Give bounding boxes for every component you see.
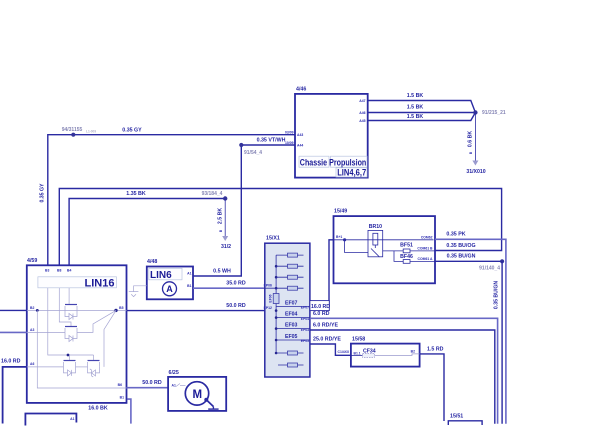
box 6/25 motor	[168, 370, 226, 411]
svg-text:B8: B8	[57, 269, 61, 273]
svg-text:15/49: 15/49	[334, 209, 347, 215]
svg-text:B3: B3	[45, 269, 49, 273]
internal bus to motor pin	[37, 310, 126, 388]
svg-text:BF51: BF51	[400, 242, 413, 248]
ground for LIN6	[129, 286, 147, 297]
svg-text:31/X010: 31/X010	[466, 169, 485, 175]
svg-text:B2: B2	[411, 349, 415, 353]
fuse EF04 row	[276, 317, 310, 319]
ground arrow 31/X010	[472, 161, 478, 166]
svg-text:25.0 RD/YE: 25.0 RD/YE	[313, 337, 341, 343]
fuse row 9	[275, 352, 278, 355]
transistor Q2	[59, 288, 77, 342]
svg-text:0.35 VT/WH: 0.35 VT/WH	[257, 138, 286, 144]
svg-text:15/58: 15/58	[352, 337, 365, 343]
wire 25.0 RD/YE to 15/58	[310, 344, 351, 355]
svg-text:A47: A47	[359, 99, 365, 103]
fuse row 2	[275, 265, 278, 268]
svg-text:COM61 B: COM61 B	[417, 246, 433, 250]
svg-text:2.5 BK: 2.5 BK	[218, 208, 224, 224]
svg-text:0.35 BU/GN: 0.35 BU/GN	[447, 254, 476, 260]
wire 1.35 BK from LIN16 pin B4 to node 93/184_4	[69, 199, 225, 266]
LIN16 name plate	[38, 277, 117, 288]
box 4/48 LIN6	[147, 259, 193, 299]
fuse row 4 / EP06 input	[275, 287, 278, 290]
svg-text:A46: A46	[359, 111, 365, 115]
svg-text:EF07: EF07	[285, 300, 298, 306]
svg-text:93/184_4: 93/184_4	[202, 191, 223, 197]
svg-text:A6: A6	[30, 362, 34, 366]
motor M symbol	[185, 382, 208, 405]
transistor Q1	[65, 288, 77, 320]
LIN16 internal row2 line	[27, 331, 65, 333]
svg-text:6.0 RD/YE: 6.0 RD/YE	[313, 323, 338, 329]
svg-text:1.5 RD: 1.5 RD	[427, 347, 444, 353]
svg-text:EP04: EP04	[301, 317, 309, 321]
svg-text:A3: A3	[30, 328, 34, 332]
fuse EF03 row	[276, 328, 310, 330]
svg-text:A: A	[166, 284, 173, 294]
wire Q2 drain to pin B5	[77, 310, 116, 332]
wire 0.6 BK ground drop	[474, 113, 476, 161]
svg-text:50.0 RD: 50.0 RD	[142, 380, 162, 386]
wire 35.0 RD LIN6 to 15/X1	[193, 287, 265, 289]
svg-text:LIN16: LIN16	[85, 277, 115, 289]
motor ground leg	[204, 398, 208, 402]
svg-text:B6: B6	[118, 383, 122, 387]
svg-text:1.35 BK: 1.35 BK	[126, 191, 146, 197]
wire 2.5 BK ground drop	[224, 199, 226, 237]
svg-text:03/09: 03/09	[285, 131, 294, 135]
gate bus from pin B3	[48, 288, 94, 355]
svg-text:A45: A45	[359, 119, 365, 123]
svg-text:16.0 BK: 16.0 BK	[88, 406, 108, 412]
actuator A symbol	[163, 282, 177, 296]
svg-text:16.0 RD: 16.0 RD	[1, 359, 21, 365]
fuse EF05 row	[276, 339, 310, 341]
wire 50.0 RD LIN16 to 15/X1	[127, 310, 265, 312]
fuse BF51	[383, 242, 435, 253]
wire 6.0 RD	[310, 318, 498, 423]
svg-text:BR10: BR10	[369, 224, 382, 230]
svg-text:1.5 BK: 1.5 BK	[407, 114, 424, 120]
svg-text:0.6 BK: 0.6 BK	[468, 131, 474, 147]
wire 0.35 BU/OG loop from 15/49 over the top to LIN16 pin B8	[59, 189, 501, 266]
box 4/46 Chassie Propulsion	[285, 87, 368, 178]
svg-text:B1.1: B1.1	[354, 351, 361, 355]
svg-text:EP06: EP06	[264, 284, 272, 288]
svg-text:EF05: EF05	[285, 334, 298, 340]
transistor Q3	[64, 361, 76, 376]
svg-text:EP03: EP03	[301, 328, 309, 332]
svg-text:0.5 WH: 0.5 WH	[213, 269, 231, 275]
wire 6.0 RD/YE	[310, 330, 495, 424]
node 91/140_4 junction dot	[500, 259, 504, 263]
internal feed bus	[275, 255, 277, 293]
svg-text:4/59: 4/59	[27, 258, 37, 264]
svg-text:A44: A44	[297, 144, 303, 148]
LIN16 internal row3 line	[27, 366, 64, 368]
fuse CF34	[363, 353, 375, 357]
svg-text:91/54_4: 91/54_4	[244, 150, 262, 156]
fuse EF06 vertical	[273, 294, 279, 304]
box 4/59 LIN16	[27, 258, 127, 403]
svg-text:94/31155: 94/31155	[62, 127, 83, 133]
fuse EF07 row	[276, 305, 310, 307]
wire 0.35 VT/WH + 0.5 WH from LIN6 pin A1 up to 4/46	[193, 145, 295, 276]
svg-text:6/25: 6/25	[169, 370, 179, 376]
svg-text:A43: A43	[297, 133, 303, 137]
node 91/215_21 junction dot	[473, 110, 477, 114]
wire 1.5 RD to 15/51	[420, 354, 444, 421]
relay switch contact	[371, 249, 380, 258]
fuse BF46	[394, 251, 435, 263]
svg-text:Chassie Propulsion: Chassie Propulsion	[300, 157, 367, 167]
wire left row1	[0, 309, 27, 311]
wire 1.5 BK pin A45	[368, 113, 476, 121]
svg-text:B+1: B+1	[336, 235, 342, 239]
svg-text:EP12: EP12	[264, 306, 272, 310]
svg-text:50.0 RD: 50.0 RD	[226, 303, 246, 309]
svg-text:35.0 RD: 35.0 RD	[226, 281, 246, 287]
box 15/X1 central electric unit connector	[265, 236, 310, 377]
LIN16 internal row1 line	[27, 309, 127, 311]
svg-text:LIN6: LIN6	[150, 270, 172, 281]
relay coil	[373, 233, 378, 245]
wire 0.35 BU/GN from COM61 A	[435, 260, 502, 262]
wire 50.0 RD LIN16 to motor	[127, 387, 169, 389]
svg-text:15/51: 15/51	[450, 414, 463, 420]
wire 16.0 BK bracket	[25, 414, 76, 426]
svg-text:EF03: EF03	[285, 323, 298, 329]
svg-text:B2: B2	[30, 306, 34, 310]
fuse row 1	[276, 254, 303, 256]
wire relay switch feed	[345, 240, 368, 253]
wire 0.35 GY from LIN16 pin B3 up and right to 4/46	[48, 135, 295, 266]
wire 16.0 RD	[3, 367, 27, 424]
svg-text:0.35 BU/GN: 0.35 BU/GN	[494, 281, 500, 310]
svg-text:B1: B1	[187, 284, 191, 288]
box 15/49 relay holder	[334, 209, 436, 284]
svg-text:COM62: COM62	[421, 235, 433, 239]
svg-text:EP07: EP07	[301, 306, 309, 310]
svg-text:91/215_21: 91/215_21	[482, 110, 506, 116]
box 15/51 (cut off)	[448, 414, 482, 426]
node relay feed dot	[343, 238, 346, 241]
wire B+ feed from fuse EF07 label up to 15/49	[329, 240, 334, 307]
svg-text:LIN4,6,7: LIN4,6,7	[337, 167, 366, 177]
wire left row2	[0, 331, 27, 333]
box 15/58 fuse holder	[351, 337, 420, 367]
svg-text:B4: B4	[67, 269, 71, 273]
svg-text:C1/4XX: C1/4XX	[338, 350, 350, 354]
ground arrow 31/2	[222, 236, 228, 241]
svg-text:4/46: 4/46	[296, 87, 306, 93]
wire 0.35 BU/GN vertical drop	[501, 261, 503, 423]
svg-text:1.5 BK: 1.5 BK	[407, 105, 424, 111]
svg-text:L1-009: L1-009	[86, 130, 96, 134]
relay BR10	[368, 224, 383, 257]
svg-text:16.0 RD: 16.0 RD	[311, 304, 330, 310]
svg-text:EF06: EF06	[268, 294, 272, 302]
label box 16.0 RD	[310, 301, 330, 311]
svg-text:M: M	[193, 389, 203, 401]
transistor Q4	[76, 361, 100, 377]
svg-text:COM61 A: COM61 A	[418, 257, 433, 261]
wire pin B5 to Q4	[104, 310, 116, 367]
svg-text:0.35 GY: 0.35 GY	[122, 128, 142, 134]
node 93/184_4 junction dot	[223, 196, 227, 200]
node 91/54_4 junction dot	[239, 143, 243, 147]
wire relay common row COM62	[334, 239, 434, 241]
svg-text:15/X1: 15/X1	[266, 236, 280, 242]
svg-text:10/09: 10/09	[285, 141, 294, 145]
wire LIN16 pin B1 stub	[128, 399, 131, 424]
svg-text:EP05: EP05	[301, 339, 309, 343]
wire 1.5 BK pin A47	[368, 101, 476, 113]
svg-text:B1: B1	[120, 395, 124, 399]
svg-text:4/48: 4/48	[147, 259, 157, 265]
svg-text:A1: A1	[172, 384, 176, 388]
node 94/31155 junction dot	[71, 133, 75, 137]
svg-text:0.35 BU/OG: 0.35 BU/OG	[446, 243, 475, 249]
svg-text:A1: A1	[187, 272, 191, 276]
wire 1.5 BK pin A46	[368, 112, 476, 114]
svg-text:0.35 PK: 0.35 PK	[446, 232, 465, 238]
svg-text:91/140_4: 91/140_4	[479, 266, 500, 272]
svg-text:EF04: EF04	[285, 312, 298, 318]
svg-text:0.35 GY: 0.35 GY	[40, 183, 46, 203]
fuse row 10	[278, 364, 304, 366]
svg-text:B5: B5	[119, 306, 123, 310]
wire 0.35 PK from COM62 down right side	[435, 239, 506, 423]
fuse row 3	[275, 276, 278, 279]
svg-text:1.5 BK: 1.5 BK	[407, 93, 424, 99]
svg-text:A1: A1	[70, 417, 74, 421]
svg-text:6.0 RD: 6.0 RD	[313, 311, 330, 317]
svg-text:31/2: 31/2	[221, 244, 231, 250]
